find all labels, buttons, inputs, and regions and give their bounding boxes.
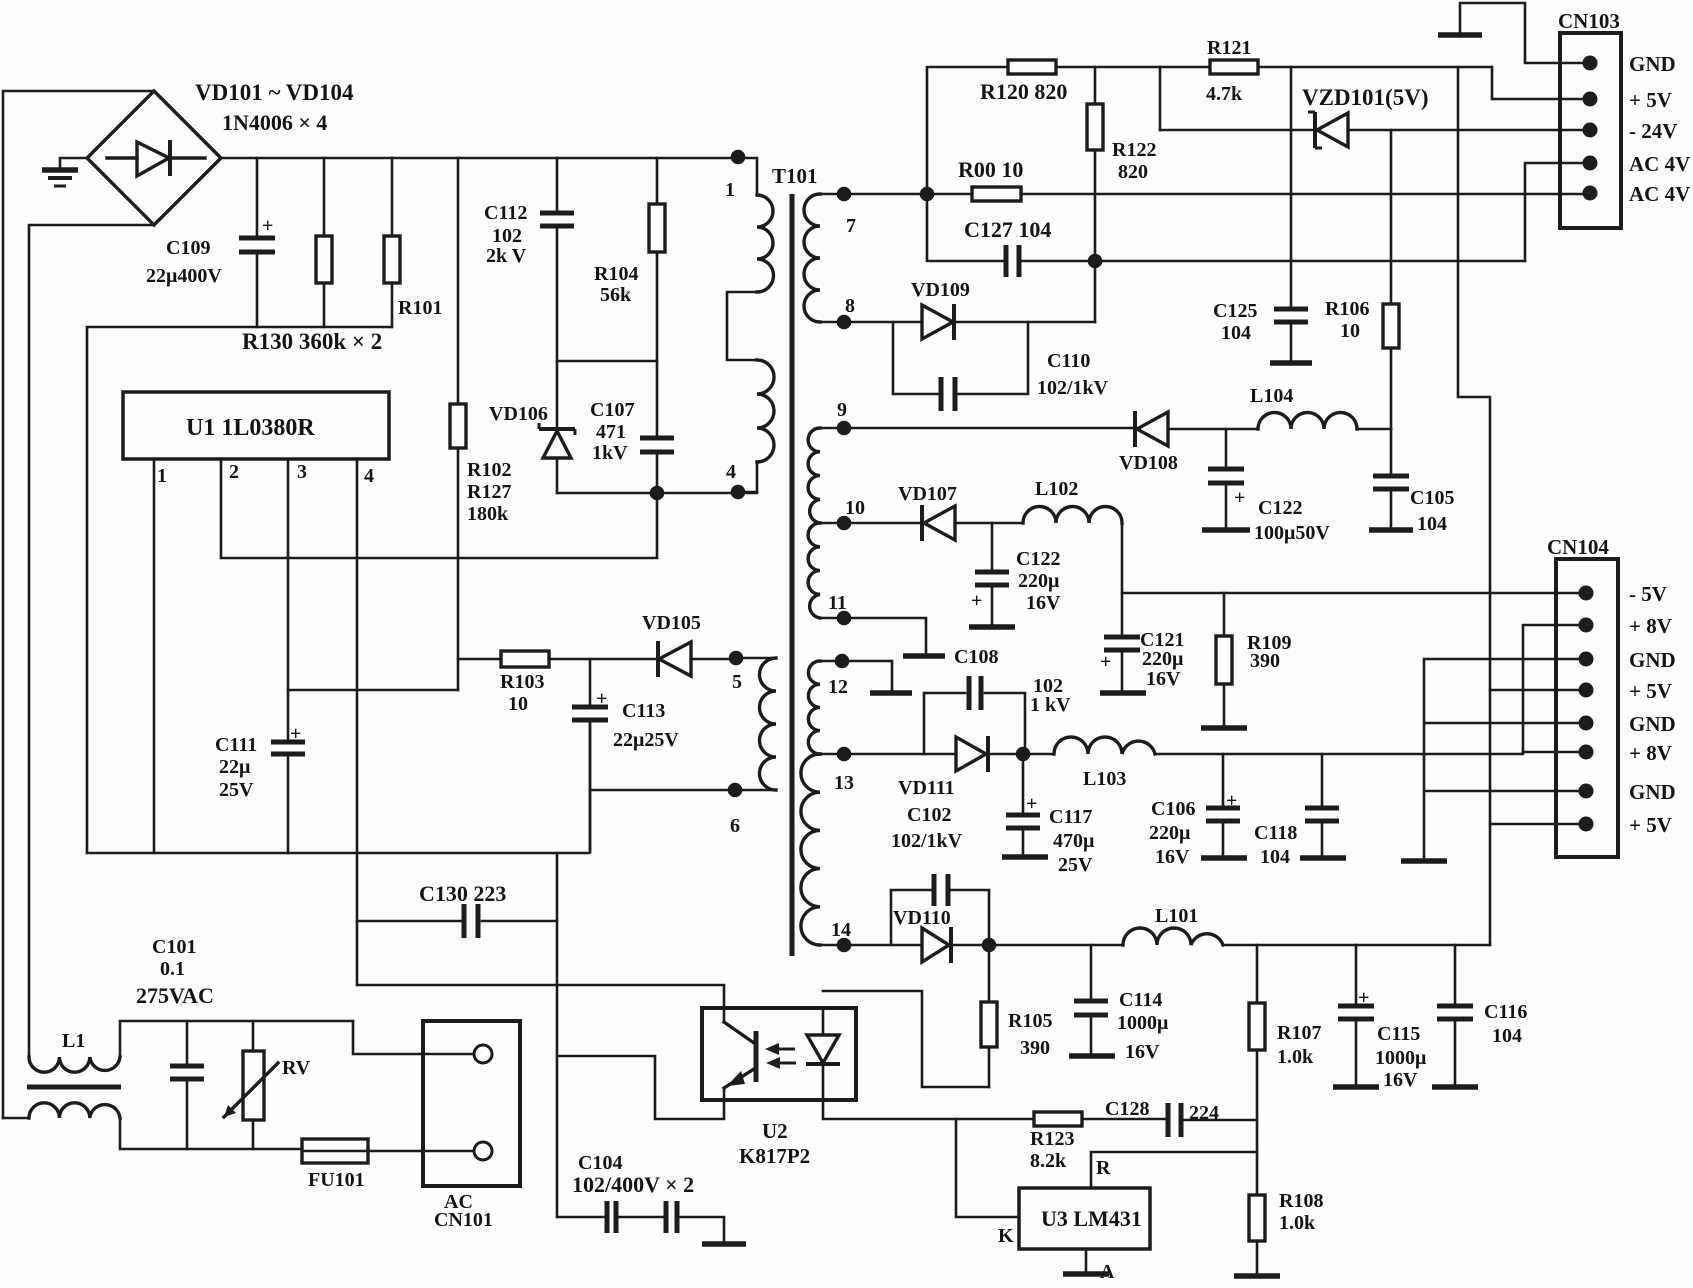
ground below R108 bbox=[1234, 1273, 1280, 1279]
wire T101 pin1 lead bbox=[738, 158, 757, 195]
svg-text:+ 5V: + 5V bbox=[1629, 813, 1672, 837]
svg-text:10: 10 bbox=[845, 497, 865, 519]
bridge rectifier VD101~VD104 bbox=[87, 91, 221, 225]
label CN104 bbox=[1547, 535, 1609, 559]
svg-text:10: 10 bbox=[1340, 320, 1360, 342]
svg-text:C122: C122 bbox=[1016, 548, 1060, 570]
resistor R101 bbox=[384, 158, 400, 327]
capacitor C109 bbox=[239, 158, 275, 327]
wire pin3 jog to R102 bbox=[288, 689, 458, 692]
svg-text:C113: C113 bbox=[622, 700, 665, 722]
capacitor C122 100u50V bbox=[1208, 429, 1245, 528]
wire pin14 to VD110 bbox=[844, 944, 922, 947]
inductor L1 top winding bbox=[29, 1021, 353, 1072]
svg-text:7: 7 bbox=[846, 215, 856, 237]
svg-text:9: 9 bbox=[837, 399, 847, 421]
wire VD109 output riser bbox=[1094, 261, 1097, 322]
label C109 bbox=[146, 237, 222, 287]
capacitor C118 bbox=[1305, 754, 1339, 856]
label C118 104 bbox=[1254, 822, 1297, 868]
label VD110 bbox=[893, 907, 951, 929]
wire pin7 to R00 bbox=[844, 193, 972, 196]
capacitor C108 snubber across VD111 bbox=[924, 676, 1025, 754]
transformer T101 primary winding bbox=[727, 195, 774, 492]
label -5V pin bbox=[1629, 582, 1667, 606]
node pin14 bbox=[831, 919, 851, 952]
label R122 820 bbox=[1112, 139, 1156, 183]
resistor R105 bbox=[981, 945, 997, 1087]
IC U3 LM431 bbox=[1019, 1188, 1150, 1249]
wire pin12 stub bbox=[842, 661, 892, 691]
wire AC line 2 bbox=[29, 225, 154, 1057]
transformer T101 winding 7-8 bbox=[804, 194, 844, 322]
label C130 223 bbox=[419, 881, 506, 906]
label C106 220u 16V bbox=[1149, 798, 1195, 868]
label 102/1kV bbox=[891, 830, 963, 852]
svg-text:1000μ: 1000μ bbox=[1117, 1012, 1169, 1034]
wire AC line 1 top bbox=[3, 91, 154, 1118]
svg-text:102/1kV: 102/1kV bbox=[1037, 377, 1109, 399]
svg-text:C101: C101 bbox=[152, 936, 196, 958]
ground below C117 bbox=[1002, 854, 1048, 860]
wire A pin of U3 bbox=[1085, 1249, 1088, 1272]
ground below C104 bbox=[702, 1241, 746, 1247]
resistor R103 bbox=[501, 651, 549, 667]
svg-text:VD109: VD109 bbox=[911, 279, 970, 301]
wire to L103 bbox=[1023, 753, 1054, 756]
label C104 102/400V x2 bbox=[572, 1152, 694, 1197]
node pin1 bbox=[725, 150, 745, 201]
svg-text:4: 4 bbox=[726, 461, 736, 483]
inductor L103 bbox=[1054, 737, 1155, 754]
capacitor C112 bbox=[540, 213, 574, 226]
label VZD101(5V) bbox=[1302, 85, 1429, 110]
svg-text:FU101: FU101 bbox=[308, 1169, 365, 1191]
svg-text:11: 11 bbox=[828, 592, 847, 614]
svg-text:1 kV: 1 kV bbox=[1030, 694, 1071, 716]
resistor R108 bbox=[1249, 1195, 1265, 1274]
svg-text:C102: C102 bbox=[907, 804, 951, 826]
label U2 K817P2 bbox=[739, 1119, 810, 1168]
label K bbox=[998, 1225, 1014, 1247]
svg-text:22μ25V: 22μ25V bbox=[613, 729, 679, 751]
wire jog C112 to R104 column bbox=[557, 360, 657, 363]
resistor R130 bbox=[316, 158, 332, 327]
wire CN104 +5V pins feed bbox=[1490, 690, 1586, 824]
capacitor C121 bbox=[1100, 637, 1140, 691]
svg-text:16V: 16V bbox=[1146, 668, 1181, 690]
wire +5V rail bbox=[1223, 944, 1490, 947]
svg-text:C106: C106 bbox=[1151, 798, 1195, 820]
label C112 bbox=[484, 202, 527, 267]
wire pin11 stub bbox=[844, 618, 926, 654]
svg-text:56k: 56k bbox=[600, 284, 632, 306]
svg-text:1.0k: 1.0k bbox=[1279, 1212, 1316, 1234]
svg-text:VD106: VD106 bbox=[489, 403, 548, 425]
zener diode VZD101 bbox=[1160, 112, 1590, 148]
wire +8V rail bbox=[1155, 625, 1586, 754]
svg-text:12: 12 bbox=[828, 676, 848, 698]
wire R102 node to R103 bbox=[458, 658, 501, 661]
label R130 bbox=[242, 329, 382, 354]
label R103 10 bbox=[500, 671, 544, 715]
svg-text:104: 104 bbox=[1492, 1025, 1522, 1047]
svg-text:220μ: 220μ bbox=[1149, 822, 1191, 844]
svg-text:A: A bbox=[1100, 1261, 1115, 1283]
svg-text:C112: C112 bbox=[484, 202, 527, 224]
fuse FU101 bbox=[302, 1139, 368, 1163]
svg-text:+: + bbox=[1234, 487, 1245, 509]
ground (CN104 GND bus) bbox=[1401, 858, 1447, 864]
label C116 104 bbox=[1484, 1001, 1527, 1047]
varistor RV bbox=[224, 1021, 278, 1149]
label R123 8.2k bbox=[1030, 1128, 1074, 1172]
svg-text:390: 390 bbox=[1250, 650, 1280, 672]
svg-text:220μ: 220μ bbox=[1142, 648, 1184, 670]
node pin5 bbox=[729, 651, 744, 693]
label T101 bbox=[772, 164, 818, 188]
ground below C105 bbox=[1369, 527, 1413, 533]
inductor L102 bbox=[1023, 507, 1122, 524]
label C121 220u 16V bbox=[1140, 629, 1184, 690]
svg-text:AC 4V: AC 4V bbox=[1629, 152, 1690, 176]
svg-text:180k: 180k bbox=[467, 503, 509, 525]
label CN103 bbox=[1558, 9, 1620, 33]
svg-text:+: + bbox=[1358, 987, 1369, 1009]
svg-text:5: 5 bbox=[732, 671, 742, 693]
svg-text:8.2k: 8.2k bbox=[1030, 1150, 1067, 1172]
svg-text:+: + bbox=[971, 590, 982, 612]
node pin7 bbox=[837, 187, 856, 237]
wire top line into CN101 bbox=[353, 1021, 474, 1054]
svg-text:+ 8V: + 8V bbox=[1629, 614, 1672, 638]
wire pin6 of T101 bbox=[590, 789, 735, 792]
svg-text:16V: 16V bbox=[1125, 1041, 1160, 1063]
resistor R121 bbox=[1210, 60, 1258, 74]
label C128 224 bbox=[1105, 1098, 1219, 1124]
svg-text:GND: GND bbox=[1629, 780, 1676, 804]
capacitor C128 bbox=[1168, 1103, 1181, 1137]
resistor R107 bbox=[1249, 945, 1265, 1195]
label +5V pin bbox=[1629, 88, 1672, 112]
svg-text:104: 104 bbox=[1221, 322, 1251, 344]
capacitor C104 a bbox=[607, 1201, 616, 1233]
label VD105 bbox=[642, 612, 701, 634]
svg-text:R120 820: R120 820 bbox=[980, 79, 1067, 104]
label R102 R127 180k bbox=[467, 459, 511, 525]
label C122 220u 16V bbox=[1016, 548, 1061, 614]
ground below C114 bbox=[1069, 1053, 1115, 1059]
wire U1 pin4 feedback to optocoupler collector bbox=[357, 985, 724, 1008]
svg-text:VD105: VD105 bbox=[642, 612, 701, 634]
svg-text:104: 104 bbox=[1417, 513, 1447, 535]
svg-text:R106: R106 bbox=[1325, 298, 1369, 320]
svg-text:CN101: CN101 bbox=[434, 1209, 493, 1231]
label GND pin b bbox=[1629, 712, 1676, 736]
label R bbox=[1096, 1157, 1111, 1179]
capacitor C113 bbox=[572, 659, 608, 852]
label C110 102/1kV bbox=[1037, 350, 1109, 399]
svg-text:C118: C118 bbox=[1254, 822, 1297, 844]
wire AC4V pin4 riser bbox=[1525, 163, 1590, 261]
label C127 104 bbox=[964, 217, 1051, 242]
svg-text:K817P2: K817P2 bbox=[739, 1144, 810, 1168]
svg-text:C122: C122 bbox=[1258, 497, 1302, 519]
ground (U3 anode) bbox=[1063, 1271, 1109, 1277]
svg-text:+ 8V: + 8V bbox=[1629, 741, 1672, 765]
pin 1 of U1 bbox=[154, 459, 167, 853]
svg-text:VD111: VD111 bbox=[898, 777, 955, 799]
svg-text:U1 1L0380R: U1 1L0380R bbox=[186, 415, 315, 441]
diode VD109 bbox=[844, 304, 1095, 340]
capacitor C127 bbox=[1006, 245, 1019, 277]
resistor R106 bbox=[1383, 304, 1399, 348]
svg-text:10: 10 bbox=[508, 693, 528, 715]
wire +5V long drop bbox=[1458, 67, 1490, 945]
ground (bridge left arm) bbox=[42, 158, 87, 186]
svg-text:R101: R101 bbox=[398, 297, 442, 319]
wire -5V rail bbox=[1122, 592, 1586, 595]
svg-text:102/400V × 2: 102/400V × 2 bbox=[572, 1172, 694, 1197]
svg-text:AC 4V: AC 4V bbox=[1629, 182, 1690, 206]
label C122 100u50V bbox=[1254, 497, 1330, 544]
svg-text:T101: T101 bbox=[772, 164, 818, 188]
label 102 1kV bbox=[1030, 675, 1071, 716]
svg-text:R: R bbox=[1096, 1157, 1111, 1179]
label C113 bbox=[613, 700, 679, 751]
capacitor C130 bbox=[464, 904, 478, 938]
resistor R120 bbox=[1008, 60, 1056, 74]
svg-text:C108: C108 bbox=[954, 646, 998, 668]
wire pin10 to VD107 bbox=[844, 522, 922, 525]
capacitor C107 bbox=[640, 438, 674, 493]
svg-text:L1: L1 bbox=[62, 1030, 85, 1052]
label +5V pin c bbox=[1629, 813, 1672, 837]
svg-text:GND: GND bbox=[1629, 648, 1676, 672]
svg-text:1kV: 1kV bbox=[592, 442, 628, 464]
node pin4 bbox=[726, 461, 745, 499]
label R101 bbox=[398, 297, 442, 319]
svg-text:R104: R104 bbox=[594, 263, 638, 285]
wire L104 to C105 column bbox=[1357, 428, 1391, 431]
svg-text:R00 10: R00 10 bbox=[958, 157, 1023, 182]
label RV bbox=[282, 1057, 311, 1079]
wire pin13 to VD111 bbox=[844, 753, 956, 756]
svg-text:U2: U2 bbox=[762, 1119, 788, 1143]
zener diode VD106 bbox=[539, 423, 575, 493]
label R105 390 bbox=[1008, 1010, 1052, 1059]
svg-text:102/1kV: 102/1kV bbox=[891, 830, 963, 852]
svg-text:102: 102 bbox=[492, 225, 522, 247]
label GND pin c bbox=[1629, 780, 1676, 804]
svg-text:+: + bbox=[1026, 793, 1037, 815]
capacitor C125 bbox=[1274, 67, 1308, 361]
transformer T101 winding 9-10-11 bbox=[808, 428, 844, 618]
svg-text:VD110: VD110 bbox=[893, 907, 951, 929]
label L102 bbox=[1035, 478, 1078, 500]
resistor R123 bbox=[1034, 1112, 1082, 1126]
phototransistor of U2 bbox=[724, 1008, 756, 1100]
label GND pin a bbox=[1629, 648, 1676, 672]
wire fuse to CN101 bbox=[368, 1150, 474, 1153]
node R122/C127 bbox=[1088, 254, 1103, 269]
svg-text:R103: R103 bbox=[500, 671, 544, 693]
label AC 4V pin bbox=[1629, 152, 1690, 176]
capacitor C101 bbox=[170, 1021, 204, 1149]
label +8V pin bbox=[1629, 614, 1672, 638]
label C115 1000u 16V bbox=[1375, 1023, 1427, 1091]
svg-text:1.0k: 1.0k bbox=[1277, 1046, 1314, 1068]
capacitor C102 snubber loop across VD110 bbox=[891, 874, 989, 945]
svg-text:+: + bbox=[290, 723, 301, 745]
node pin13 bbox=[834, 747, 854, 794]
wire R106 branch bbox=[1390, 130, 1393, 429]
ground (CN103 GND) bbox=[1438, 32, 1482, 38]
wire isolation column bbox=[556, 853, 559, 1217]
wire pin9 to VD108 bbox=[844, 427, 1135, 430]
svg-text:R108: R108 bbox=[1279, 1190, 1323, 1212]
wire CN103 GND pin to chassis bbox=[1460, 3, 1590, 63]
svg-text:1: 1 bbox=[157, 465, 167, 487]
inductor L1 bottom winding bbox=[3, 1103, 302, 1149]
svg-text:16V: 16V bbox=[1026, 592, 1061, 614]
wire LED cathode row bbox=[823, 1100, 1034, 1119]
svg-text:R122: R122 bbox=[1112, 139, 1156, 161]
pin 2 of U1 bbox=[221, 459, 657, 558]
svg-text:C104: C104 bbox=[578, 1152, 622, 1174]
svg-text:C107: C107 bbox=[590, 399, 634, 421]
node pin6 bbox=[728, 783, 743, 837]
inductor L104 bbox=[1258, 413, 1357, 430]
wire VZD101 branch down bbox=[1159, 67, 1162, 130]
label R120 820 bbox=[980, 79, 1067, 104]
svg-text:104: 104 bbox=[1260, 846, 1290, 868]
label R104 bbox=[594, 263, 638, 306]
wire C112 branch bbox=[556, 158, 559, 428]
svg-text:C114: C114 bbox=[1119, 989, 1162, 1011]
resistor R104 bbox=[649, 158, 665, 438]
capacitor C122 220u16V bbox=[971, 523, 1009, 625]
diode VD111 bbox=[956, 736, 1023, 772]
svg-text:3: 3 bbox=[297, 461, 307, 483]
wire C104 row bbox=[557, 1217, 724, 1242]
wire R123 to C128 bbox=[1082, 1118, 1168, 1121]
svg-text:VD108: VD108 bbox=[1119, 452, 1178, 474]
ground below C106 bbox=[1201, 855, 1247, 861]
svg-text:1N4006 × 4: 1N4006 × 4 bbox=[222, 110, 327, 135]
label C107 bbox=[590, 399, 634, 464]
ground (pin11 stub) bbox=[903, 653, 945, 659]
svg-text:1000μ: 1000μ bbox=[1375, 1047, 1427, 1069]
wire R105 bottom to LED anode bbox=[823, 991, 989, 1087]
node pin8 bbox=[837, 295, 855, 329]
svg-text:L101: L101 bbox=[1155, 905, 1198, 927]
ground below C118 bbox=[1300, 855, 1346, 861]
svg-text:C110: C110 bbox=[1047, 350, 1090, 372]
svg-text:R123: R123 bbox=[1030, 1128, 1074, 1150]
label R106 10 bbox=[1325, 298, 1369, 342]
label R108 1.0k bbox=[1279, 1190, 1323, 1234]
node pin9 bbox=[837, 399, 852, 435]
transformer T101 core bbox=[790, 194, 795, 956]
wire L102 down to -5V rail and C121 bbox=[1121, 523, 1124, 637]
svg-text:+: + bbox=[1100, 651, 1111, 673]
wire CN104 GND bus bbox=[1424, 659, 1586, 859]
svg-text:C117: C117 bbox=[1049, 806, 1092, 828]
core of L1 bbox=[27, 1085, 121, 1090]
node pin10 bbox=[837, 497, 865, 530]
svg-text:R107: R107 bbox=[1277, 1022, 1321, 1044]
label A bbox=[1100, 1261, 1115, 1283]
svg-text:C116: C116 bbox=[1484, 1001, 1527, 1023]
capacitor C105 bbox=[1373, 429, 1409, 528]
pin 4 of U1 bbox=[357, 459, 374, 985]
node at C107 bottom bbox=[650, 486, 665, 501]
wire C113 column joins pin6 wire and rail bbox=[589, 720, 592, 852]
label L1 bbox=[62, 1030, 85, 1052]
capacitor C115 bbox=[1338, 945, 1374, 1085]
connector CN104 bbox=[1556, 559, 1618, 857]
wire rail right of R121 bbox=[1258, 66, 1492, 69]
label L104 bbox=[1250, 385, 1293, 407]
label C125 104 bbox=[1213, 300, 1257, 344]
connector CN103 bbox=[1560, 33, 1621, 228]
svg-text:- 5V: - 5V bbox=[1629, 582, 1667, 606]
label L101 bbox=[1155, 905, 1198, 927]
ground below C122b bbox=[969, 624, 1015, 630]
svg-text:R105: R105 bbox=[1008, 1010, 1052, 1032]
node pin7 net junction bbox=[920, 187, 935, 202]
capacitor C114 bbox=[1074, 945, 1108, 1054]
wire U2 emitter return bbox=[557, 1056, 724, 1119]
svg-text:4: 4 bbox=[364, 465, 374, 487]
svg-text:VD101 ~ VD104: VD101 ~ VD104 bbox=[195, 80, 354, 105]
node pin11 bbox=[828, 592, 851, 625]
resistor R102/R127 bbox=[450, 158, 466, 690]
svg-text:R127: R127 bbox=[467, 481, 511, 503]
svg-text:220μ: 220μ bbox=[1018, 570, 1060, 592]
svg-text:GND: GND bbox=[1629, 712, 1676, 736]
transformer T101 winding 5-6 bbox=[735, 658, 776, 790]
capacitor C110 snubber loop bbox=[893, 322, 1028, 411]
label 1N4006 x4 bbox=[222, 110, 327, 135]
svg-text:CN103: CN103 bbox=[1558, 9, 1620, 33]
ground below C115 bbox=[1333, 1084, 1379, 1090]
transformer T101 winding 12-13-14 bbox=[801, 661, 844, 945]
label AC 4V pin2 bbox=[1629, 182, 1690, 206]
label VD106 bbox=[489, 403, 548, 425]
wire +DC rail bbox=[221, 157, 738, 160]
svg-text:L103: L103 bbox=[1083, 768, 1126, 790]
label R107 1.0k bbox=[1277, 1022, 1321, 1068]
wire primary ground rail bbox=[87, 852, 589, 855]
svg-text:1: 1 bbox=[725, 179, 735, 201]
label C117 470u 25V bbox=[1049, 806, 1095, 876]
svg-text:RV: RV bbox=[282, 1057, 311, 1079]
svg-text:+ 5V: + 5V bbox=[1629, 88, 1672, 112]
svg-text:K: K bbox=[998, 1225, 1014, 1247]
capacitor C116 bbox=[1437, 945, 1473, 1085]
svg-text:16V: 16V bbox=[1155, 846, 1190, 868]
svg-text:C130 223: C130 223 bbox=[419, 881, 506, 906]
label C102 bbox=[907, 804, 951, 826]
label C105 104 bbox=[1410, 487, 1454, 535]
svg-text:C127 104: C127 104 bbox=[964, 217, 1051, 242]
svg-text:16V: 16V bbox=[1383, 1069, 1418, 1091]
node pin12 bbox=[828, 654, 849, 698]
capacitor C111 bbox=[271, 723, 305, 754]
label L103 bbox=[1083, 768, 1126, 790]
